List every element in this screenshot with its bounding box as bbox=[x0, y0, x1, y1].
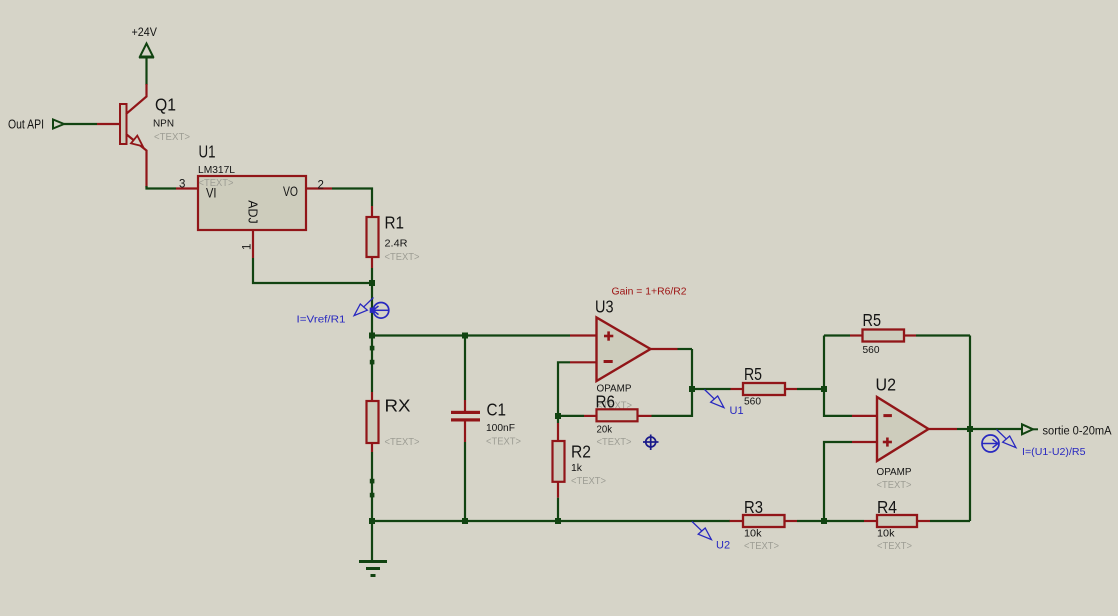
resistor R2 bbox=[553, 423, 565, 498]
wire node to R4 bbox=[824, 520, 864, 522]
svg-text:2.4R: 2.4R bbox=[385, 238, 408, 250]
svg-text:R4: R4 bbox=[877, 497, 897, 517]
wire top feedback left bbox=[824, 334, 850, 336]
terminal sortie 0-20mA bbox=[1022, 424, 1038, 434]
svg-text:<TEXT>: <TEXT> bbox=[571, 475, 606, 487]
svg-text:sortie 0-20mA: sortie 0-20mA bbox=[1043, 426, 1112, 438]
wire +24V to Q1 collector bbox=[145, 58, 147, 85]
svg-text:VO: VO bbox=[283, 184, 298, 199]
svg-text:U2: U2 bbox=[716, 540, 730, 552]
svg-text:3: 3 bbox=[179, 179, 185, 191]
wire mid row to U3 + bbox=[372, 334, 570, 336]
wire main vertical upper bbox=[371, 268, 373, 392]
svg-text:+24V: +24V bbox=[132, 27, 158, 39]
svg-text:Q1: Q1 bbox=[155, 95, 176, 115]
wire C1 top bbox=[464, 336, 466, 401]
wire bottom row bbox=[372, 520, 730, 522]
svg-text:VI: VI bbox=[206, 186, 217, 201]
resistor R4 bbox=[864, 515, 930, 527]
wire R3 to node bbox=[797, 520, 824, 522]
wire top feedback right bbox=[916, 334, 970, 336]
node R2 bottom junction bbox=[555, 518, 561, 524]
wire R4 right up bbox=[930, 520, 970, 522]
svg-text:<TEXT>: <TEXT> bbox=[744, 540, 779, 552]
svg-text:10k: 10k bbox=[877, 528, 895, 540]
wire feedback left vertical bbox=[824, 336, 852, 416]
svg-text:<TEXT>: <TEXT> bbox=[385, 251, 420, 263]
resistor R5 top bbox=[850, 330, 916, 342]
probe U2 bbox=[692, 522, 730, 552]
marker origin crosshair bbox=[643, 435, 659, 451]
svg-text:560: 560 bbox=[744, 396, 761, 408]
wire U2 + input bbox=[824, 442, 852, 521]
svg-text:R6: R6 bbox=[596, 392, 616, 412]
node ADJ junction bbox=[369, 280, 375, 286]
svg-text:Out API: Out API bbox=[8, 118, 44, 132]
op-amp U3 bbox=[570, 318, 678, 382]
wire R2 bottom bbox=[557, 498, 559, 521]
resistor RX bbox=[367, 392, 379, 452]
node bottom-row junction bbox=[369, 518, 375, 524]
svg-text:Gain = 1+R6/R2: Gain = 1+R6/R2 bbox=[612, 286, 687, 298]
wire R6 right up to U3 out bbox=[652, 349, 693, 416]
wire right vertical bbox=[969, 336, 971, 522]
ground bbox=[359, 562, 387, 576]
node output junction bbox=[967, 426, 973, 432]
svg-text:R5: R5 bbox=[863, 310, 882, 330]
svg-text:ADJ: ADJ bbox=[246, 200, 261, 224]
svg-text:LM317L: LM317L bbox=[198, 165, 235, 176]
wire Q1 emitter to U1 VI bbox=[147, 186, 177, 189]
svg-text:OPAMP: OPAMP bbox=[877, 467, 912, 478]
resistor R5 mid bbox=[731, 383, 798, 395]
node C1 top junction bbox=[462, 333, 468, 339]
svg-text:U3: U3 bbox=[595, 297, 614, 317]
op-amp U2 bbox=[852, 397, 957, 461]
node U3 output junction bbox=[689, 386, 695, 392]
node C1 bottom junction bbox=[462, 518, 468, 524]
svg-text:<TEXT>: <TEXT> bbox=[385, 436, 420, 448]
svg-text:R5: R5 bbox=[744, 364, 762, 384]
svg-text:1: 1 bbox=[242, 244, 254, 250]
node U2 + junction bbox=[821, 518, 827, 524]
wire R5 mid to U2 node bbox=[797, 388, 824, 390]
wire C1 bottom bbox=[464, 442, 466, 521]
wire U2 out to node bbox=[957, 428, 970, 430]
current probe I=Vref/R1 bbox=[297, 298, 389, 326]
node U2 inv junction bbox=[821, 386, 827, 392]
wire U3 - input loop bbox=[558, 362, 570, 423]
probe U1 bbox=[705, 390, 744, 418]
svg-text:100nF: 100nF bbox=[486, 422, 515, 434]
wire Out API to Q1 base bbox=[64, 123, 97, 125]
resistor R3 bbox=[730, 515, 797, 527]
svg-text:U1: U1 bbox=[199, 142, 216, 162]
transistor Q1 bbox=[97, 84, 147, 188]
capacitor C1 bbox=[451, 400, 480, 442]
svg-text:I=Vref/R1: I=Vref/R1 bbox=[297, 314, 346, 326]
svg-text:560: 560 bbox=[863, 344, 880, 356]
svg-text:RX: RX bbox=[385, 396, 411, 416]
svg-text:<TEXT>: <TEXT> bbox=[877, 480, 912, 491]
wire segment marks bbox=[370, 346, 375, 351]
terminal Out API bbox=[53, 120, 64, 129]
svg-text:C1: C1 bbox=[487, 400, 507, 420]
node mid-row junction bbox=[369, 333, 375, 339]
svg-text:20k: 20k bbox=[597, 424, 613, 436]
svg-text:NPN: NPN bbox=[153, 118, 174, 130]
wire node to output terminal bbox=[970, 428, 1022, 430]
svg-text:U1: U1 bbox=[730, 405, 744, 417]
current probe I=(U1-U2)/R5 bbox=[982, 430, 1086, 459]
resistor R6 bbox=[584, 409, 652, 421]
wire U1 ADJ to node bbox=[253, 258, 372, 283]
svg-text:R2: R2 bbox=[571, 442, 591, 462]
svg-text:<TEXT>: <TEXT> bbox=[597, 436, 632, 448]
regulator U1 LM317L bbox=[176, 176, 332, 258]
power +24V symbol bbox=[139, 44, 154, 58]
svg-text:U2: U2 bbox=[876, 375, 897, 395]
svg-text:R3: R3 bbox=[744, 497, 763, 517]
svg-text:<TEXT>: <TEXT> bbox=[877, 540, 912, 552]
wire U3 out bbox=[678, 348, 693, 350]
wire R6 left to node bbox=[558, 415, 584, 417]
wire main vertical lower bbox=[371, 452, 373, 561]
svg-text:1k: 1k bbox=[571, 462, 583, 474]
svg-text:R1: R1 bbox=[385, 213, 405, 233]
resistor R1 bbox=[367, 206, 379, 268]
svg-text:10k: 10k bbox=[744, 528, 762, 540]
svg-text:<TEXT>: <TEXT> bbox=[486, 436, 521, 448]
svg-text:I=(U1-U2)/R5: I=(U1-U2)/R5 bbox=[1022, 446, 1086, 458]
svg-text:2: 2 bbox=[318, 180, 324, 192]
node R6 left junction bbox=[555, 413, 561, 419]
wire U3 out node to R5 bbox=[692, 388, 731, 390]
wire U1 VO to R1 bbox=[332, 189, 372, 207]
wire segment marks bbox=[370, 479, 375, 484]
svg-text:<TEXT>: <TEXT> bbox=[154, 131, 190, 143]
